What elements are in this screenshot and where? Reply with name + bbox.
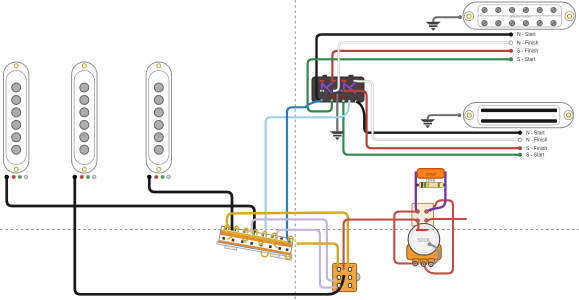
node HB1 N-Start dot — [509, 32, 513, 36]
output jack J1 body — [333, 263, 357, 291]
node HB1 S-Finish dot — [509, 49, 513, 53]
svg-text:S - Finish: S - Finish — [517, 49, 538, 55]
humbucker HB1 top Seymour Duncan — [463, 2, 576, 29]
switch SW1 DPDT body — [312, 77, 364, 102]
pickup P3 terminal dots — [147, 175, 171, 180]
pot VR1 switch lugs — [416, 210, 428, 222]
wire pot casing ground gray — [430, 244, 439, 264]
wire pickup P3 black to 5-way — [149, 178, 232, 231]
svg-text:N - Start: N - Start — [526, 130, 545, 136]
wire pot loop red right — [424, 200, 453, 273]
ground symbol G3 — [330, 131, 345, 140]
svg-text:.005uF: .005uF — [425, 172, 437, 176]
potentiometer VR1 base — [407, 244, 441, 264]
5-way switch gold staples and jumpers — [221, 224, 294, 261]
wire HB2 S-Start green — [343, 103, 520, 155]
SW1 bottom lug pads — [320, 99, 357, 102]
wire SW1 ground gray — [336, 94, 338, 131]
node HB1 N-Finish dot — [509, 41, 513, 45]
wire jack to pot red — [344, 220, 419, 270]
HB1 ground lead wire — [433, 15, 462, 21]
node HB2 N-Start dot — [518, 131, 522, 135]
pot VR1 switch solder dots — [417, 210, 428, 221]
SW1 middle row pads — [320, 90, 346, 92]
wire red stub right — [428, 219, 467, 221]
jack J1 lug rings — [337, 267, 352, 287]
node HB1 S-Start dot — [509, 57, 513, 61]
SW1 internal purple links — [322, 83, 355, 92]
wire 5-way to jack lavender outer — [252, 219, 337, 280]
resistor R1 — [416, 178, 445, 187]
SW1 top row lugs — [320, 80, 359, 82]
wire cap purple right — [428, 172, 446, 212]
svg-text:S - Start: S - Start — [526, 152, 545, 158]
dashed guide line vertical — [294, 0, 296, 300]
humbucker HB2 bottom rail pickup — [463, 103, 573, 128]
node HB2 N-Finish dot — [518, 138, 522, 142]
pickup P2 middle single coil — [72, 62, 97, 173]
ground symbol G1 — [426, 22, 441, 31]
wire HB1 N-Finish white — [333, 43, 511, 91]
svg-text:Seymour Duncan: Seymour Duncan — [509, 14, 531, 18]
pot VR1 lug row3 bar — [416, 229, 428, 231]
ground symbol G2 — [420, 119, 435, 128]
wire HB1 S-Start green — [308, 59, 511, 111]
node HB2 S-Finish dot — [518, 146, 522, 150]
svg-text:N - Finish: N - Finish — [526, 138, 548, 144]
potentiometer VR1 body circle 500K — [408, 224, 440, 256]
capacitor C1 — [417, 169, 444, 179]
wire 5-way to jack gold lower — [297, 244, 338, 267]
SW1 mounting nubs — [323, 75, 328, 78]
dashed guide line horizontal — [0, 229, 579, 231]
output jack J1 cup — [351, 273, 360, 282]
pickup P1 terminal dots — [4, 175, 28, 180]
node HB2 S-Start dot — [518, 153, 522, 157]
wire cap purple left — [416, 172, 418, 212]
wire 5-way to jack gold hot — [227, 213, 348, 267]
wire SW1 to 5-way cyan — [266, 102, 350, 236]
pickup P2 terminal dots — [73, 175, 97, 180]
svg-text:S - Finish: S - Finish — [526, 146, 547, 152]
wire pot loop red left — [394, 212, 416, 264]
wire HB2 S-Finish red — [344, 91, 520, 148]
svg-text:N - Start: N - Start — [517, 32, 536, 38]
wire HB2 N-Start black — [356, 102, 520, 133]
pot VR1 lug solder dots — [414, 262, 416, 264]
potentiometer VR1 switch tab — [412, 203, 434, 226]
wire pickup P1 black to 5-way — [7, 178, 255, 233]
wire pickup P2 black to jack — [75, 178, 344, 294]
pot VR1 bottom lug rings — [413, 261, 433, 266]
pickup P1 neck single coil — [4, 62, 29, 173]
wire HB2 N-Finish white — [357, 81, 521, 140]
wire HB1 N-Start black — [317, 35, 512, 101]
svg-text:N - Finish: N - Finish — [517, 40, 539, 46]
wire SW1 to 5-way blue — [287, 101, 322, 242]
wire 5-way to jack lavender inner — [277, 230, 337, 288]
svg-text:150kΩ: 150kΩ — [426, 178, 436, 182]
node pot casing solder — [428, 242, 432, 246]
svg-text:S - Start: S - Start — [517, 57, 536, 63]
wire HB1 S-Finish red — [332, 51, 511, 81]
pickup P3 bridge-side single coil — [146, 62, 171, 173]
HB2 ground lead wire — [428, 113, 461, 119]
switch SW2 5-way blade switch body — [216, 226, 295, 261]
SW1 jumper bar — [331, 95, 346, 97]
